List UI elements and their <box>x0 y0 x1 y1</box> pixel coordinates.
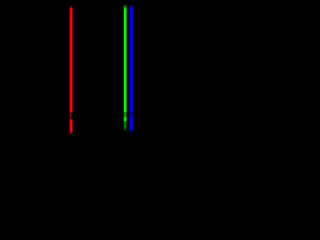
smooth bottom fade overlay: green <box>123 127 128 132</box>
red discharge tube line <box>69 5 73 135</box>
smooth top fade overlay: green <box>123 4 128 9</box>
smooth bottom fade overlay: blue <box>128 129 133 135</box>
blue bottom fade tail <box>129 130 134 135</box>
spectral tube photo: three glowing vertical lines on black <box>0 0 222 155</box>
blue dim electrode gap <box>129 112 134 116</box>
blue lower bright blob <box>129 117 134 130</box>
smooth top fade overlay: red <box>69 5 73 9</box>
red top thin fade-in segment <box>71 5 72 8</box>
green lower dim section <box>123 121 127 127</box>
red dim electrode gap <box>70 112 72 117</box>
red main bright column <box>69 8 73 112</box>
green lower bright blob <box>123 117 127 121</box>
smooth bottom fade overlay: red <box>69 131 74 135</box>
green discharge tube line <box>123 4 127 131</box>
smooth top fade overlay: blue <box>128 4 133 9</box>
red lower bright blob <box>69 119 73 134</box>
green main bright column <box>123 4 127 112</box>
green bottom fade tail <box>123 127 127 132</box>
green dim electrode gap <box>123 112 127 117</box>
blue main bright column <box>129 4 134 112</box>
blue discharge tube line <box>129 4 134 135</box>
